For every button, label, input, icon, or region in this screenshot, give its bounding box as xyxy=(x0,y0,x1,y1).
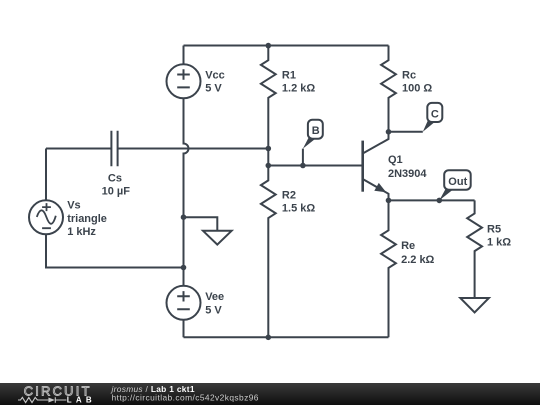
svg-text:1.2 kΩ: 1.2 kΩ xyxy=(282,83,315,95)
resistor R1 xyxy=(261,46,315,149)
wire bottom rail xyxy=(184,336,389,338)
wire Vcc top stub xyxy=(183,46,185,65)
voltage source Vcc xyxy=(167,64,225,98)
wire Vcc to Vee with hop over capacitor wire xyxy=(184,98,189,285)
capacitor Cs xyxy=(102,131,131,198)
wire top rail xyxy=(184,45,389,47)
svg-text:R2: R2 xyxy=(282,189,296,201)
svg-text:100 Ω: 100 Ω xyxy=(402,83,432,95)
wire Vs top stub xyxy=(45,149,47,201)
transistor Q1 2N3904 xyxy=(363,132,428,201)
svg-text:http://circuitlab.com/c542v2kq: http://circuitlab.com/c542v2kqsbz96 xyxy=(112,393,259,403)
junction dot Vs return xyxy=(181,265,187,271)
wire emitter out xyxy=(389,199,475,201)
node ground tee wire xyxy=(184,217,218,231)
svg-text:1 kΩ: 1 kΩ xyxy=(487,236,511,248)
ground symbol below R5 xyxy=(460,298,489,313)
svg-text:Rc: Rc xyxy=(402,70,416,82)
junction dot R1 top xyxy=(266,43,272,49)
svg-text:10 µF: 10 µF xyxy=(102,185,131,197)
voltage source Vs (triangle) xyxy=(29,200,107,239)
resistor Re xyxy=(381,200,434,337)
svg-text:Vcc: Vcc xyxy=(205,70,225,82)
svg-text:Vee: Vee xyxy=(205,291,224,303)
junction dot ground tee xyxy=(181,214,187,220)
logo squiggle resistor and diode xyxy=(18,397,66,402)
wire base xyxy=(268,165,362,167)
svg-text:1 kHz: 1 kHz xyxy=(67,226,96,238)
resistor Rc xyxy=(381,46,432,132)
svg-text:1.5 kΩ: 1.5 kΩ xyxy=(282,202,315,214)
junction dot base node xyxy=(266,163,272,169)
wire Vs return bottom xyxy=(46,235,184,268)
junction dot emitter xyxy=(386,198,392,204)
svg-text:R1: R1 xyxy=(282,69,296,81)
svg-text:Vs: Vs xyxy=(67,200,80,212)
resistor R2 xyxy=(261,166,315,338)
flag C xyxy=(389,103,443,132)
svg-text:triangle: triangle xyxy=(67,213,107,225)
svg-text:Out: Out xyxy=(448,176,467,188)
junction dot flag B xyxy=(300,163,306,169)
junction dot collector xyxy=(386,129,392,135)
svg-text:Q1: Q1 xyxy=(388,154,403,166)
voltage source Vee xyxy=(167,286,225,320)
wire R1 to base node xyxy=(267,149,269,166)
wire capacitor right to R1 column xyxy=(118,148,269,150)
junction dot capacitor node xyxy=(266,146,272,152)
svg-text:R5: R5 xyxy=(487,224,501,236)
wire Vee bottom stub xyxy=(183,320,185,338)
junction dot flag Out xyxy=(437,198,443,204)
footer bar xyxy=(0,383,540,405)
svg-text:Re: Re xyxy=(401,240,415,252)
ground symbol near Vcc xyxy=(203,231,232,245)
wire capacitor left xyxy=(46,148,111,150)
flag B xyxy=(303,120,323,166)
svg-text:C: C xyxy=(431,109,439,121)
flag Out xyxy=(439,170,470,200)
svg-text:5 V: 5 V xyxy=(205,305,222,317)
resistor R5 xyxy=(467,200,511,298)
junction dot R2 bottom xyxy=(266,335,272,341)
svg-text:5 V: 5 V xyxy=(205,83,222,95)
svg-text:Cs: Cs xyxy=(108,173,122,185)
svg-text:2N3904: 2N3904 xyxy=(388,168,427,180)
svg-text:B: B xyxy=(312,125,320,137)
svg-text:LAB: LAB xyxy=(67,396,96,405)
svg-text:2.2 kΩ: 2.2 kΩ xyxy=(401,254,434,266)
